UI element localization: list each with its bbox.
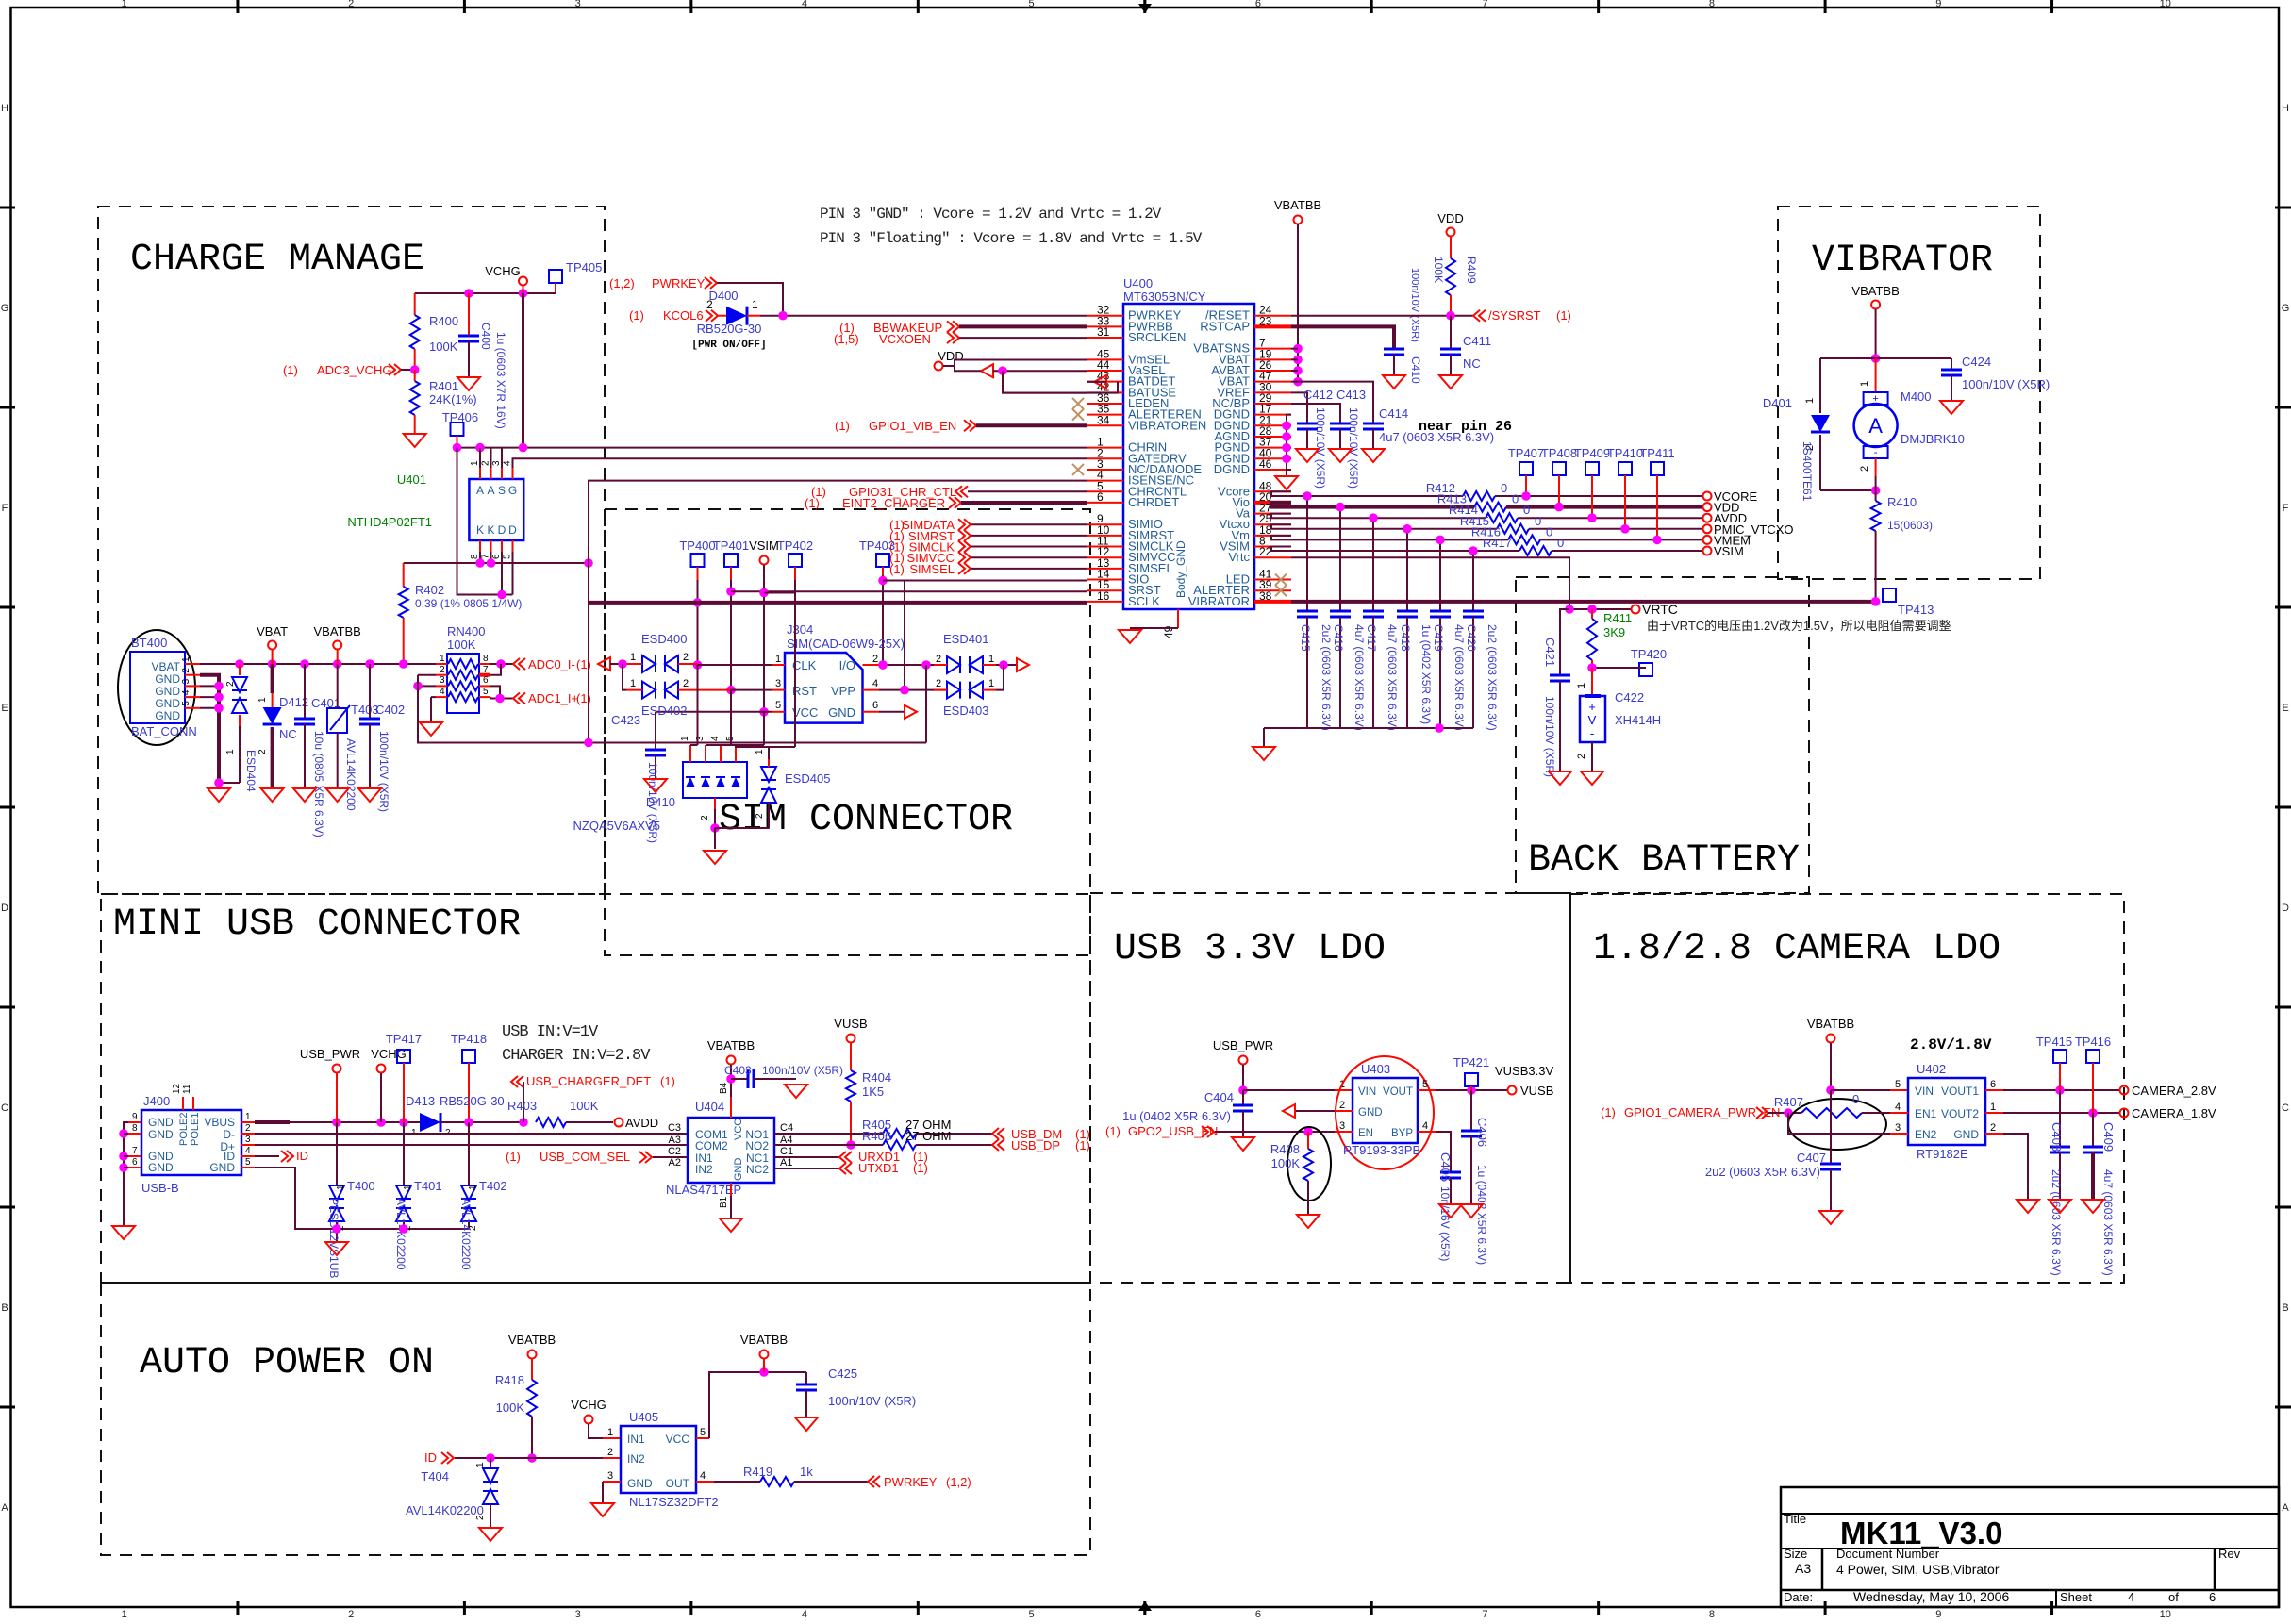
- capacitor C413: [1330, 423, 1351, 425]
- ground U402: [2017, 1200, 2039, 1213]
- U403 VOUT pin 5: [1418, 1089, 1436, 1091]
- svg-text:CAMERA_2.8V: CAMERA_2.8V: [2132, 1084, 2216, 1098]
- frame tick top/bottom: [2050, 0, 2053, 13]
- U400 pin 12 SIMVCC: [1087, 556, 1123, 558]
- resistor R405 27 OHM: [883, 1129, 916, 1138]
- ground C402: [358, 788, 381, 802]
- svg-text:CHRDET: CHRDET: [1128, 495, 1179, 509]
- svg-text:2: 2: [1576, 754, 1587, 759]
- svg-text:C425: C425: [828, 1367, 857, 1381]
- svg-text:4 Power, SIM, USB,Vibrator: 4 Power, SIM, USB,Vibrator: [1836, 1562, 2000, 1577]
- svg-text:1: 1: [122, 1609, 127, 1619]
- svg-text:1: 1: [630, 678, 636, 689]
- ground C406: [1460, 1204, 1483, 1218]
- svg-text:[PWR ON/OFF]: [PWR ON/OFF]: [691, 340, 766, 351]
- power terminal CAMERA_1.8V: [2120, 1109, 2129, 1118]
- svg-text:9: 9: [1935, 1609, 1941, 1619]
- svg-text:USB_DP: USB_DP: [1011, 1138, 1060, 1152]
- svg-text:4: 4: [245, 1146, 251, 1156]
- capacitor C404 1u (0402 X5R 6.3V): [1242, 1090, 1244, 1105]
- net UTXD1 (1): [774, 1168, 839, 1169]
- U401 pin 7: [490, 540, 492, 552]
- svg-text:TP401: TP401: [713, 539, 749, 553]
- svg-text:/SYSRST: /SYSRST: [1488, 308, 1541, 323]
- svg-text:Vrtc: Vrtc: [1228, 550, 1250, 564]
- U400 pin 27 Va: [1254, 513, 1291, 515]
- svg-text:TP416: TP416: [2075, 1035, 2111, 1049]
- svg-text:BYP: BYP: [1391, 1128, 1413, 1139]
- svg-text:UTXD1: UTXD1: [858, 1161, 899, 1175]
- no-connect X LED: [1275, 574, 1287, 586]
- svg-text:7: 7: [1482, 0, 1487, 9]
- svg-text:VUSB: VUSB: [834, 1017, 867, 1031]
- testpoint TP408: [1552, 462, 1566, 475]
- svg-text:5: 5: [1895, 1079, 1901, 1090]
- svg-text:EN: EN: [1358, 1128, 1373, 1139]
- svg-text:GPO2_USB_EN: GPO2_USB_EN: [1128, 1124, 1218, 1138]
- svg-text:TP408: TP408: [1541, 446, 1577, 460]
- wire NC/BP to C413: [1291, 404, 1340, 423]
- wire J400 gnd: [124, 1122, 128, 1226]
- U400 pin 5 CHRCNTL: [1087, 490, 1123, 492]
- net USB_DM (1): [992, 1128, 1004, 1139]
- wire VPP row: [879, 689, 948, 691]
- BT400 pin 1: [185, 663, 200, 665]
- ground C413: [1329, 449, 1352, 462]
- svg-text:A: A: [1, 1502, 8, 1514]
- connector J400 USB-B: [141, 1110, 241, 1175]
- net Vrtc wire to VRTC: [1291, 557, 1569, 609]
- wire BATUSE: [1003, 392, 1087, 394]
- svg-text:VBATBB: VBATBB: [707, 1038, 755, 1052]
- svg-text:MK11_V3.0: MK11_V3.0: [1840, 1516, 2002, 1550]
- ground D412: [261, 788, 284, 802]
- svg-text:VIN: VIN: [1915, 1085, 1934, 1098]
- svg-text:U405: U405: [629, 1410, 658, 1424]
- svg-text:VDD: VDD: [1437, 211, 1463, 225]
- svg-text:5: 5: [775, 700, 781, 711]
- wire RN400 pin2/3 net down: [417, 681, 419, 692]
- power terminal VSIM: [1703, 547, 1712, 555]
- wire RSTCAP to C410: [1291, 326, 1394, 349]
- U401 pin 2: [490, 468, 492, 479]
- svg-text:2: 2: [475, 1515, 486, 1520]
- frame tick top/bottom: [1143, 0, 1146, 13]
- ground U404: [720, 1218, 742, 1232]
- ground D410: [704, 851, 726, 864]
- svg-text:TP400: TP400: [679, 539, 715, 553]
- connector BT400 BAT_CONN: [118, 630, 195, 745]
- svg-text:TP406: TP406: [442, 410, 478, 424]
- U400 pin 13 SIMSEL: [1087, 568, 1123, 570]
- svg-text:C405: C405: [1438, 1152, 1453, 1182]
- svg-text:Title: Title: [1784, 1512, 1806, 1526]
- svg-text:GND: GND: [148, 1161, 174, 1174]
- svg-text:(1,2): (1,2): [609, 276, 635, 290]
- svg-text:VOUT: VOUT: [1383, 1086, 1413, 1098]
- svg-text:2: 2: [440, 665, 445, 675]
- svg-text:C400: C400: [479, 323, 492, 350]
- resistor R403 100K: [536, 1118, 566, 1127]
- svg-text:D: D: [1, 903, 8, 914]
- svg-text:ESD405: ESD405: [785, 771, 830, 786]
- U400 pin 7 VBATSNS: [1254, 348, 1291, 350]
- U400 pin 1 CHRIN: [1087, 447, 1123, 449]
- svg-text:GPIO1_VIB_EN: GPIO1_VIB_EN: [869, 419, 956, 433]
- net USB_DP (1): [992, 1139, 1004, 1151]
- net VIBRATOR wire to vibrator section: [1291, 600, 1876, 604]
- resistor R413 0: [1474, 503, 1506, 512]
- svg-text:NTHD4P02FT1: NTHD4P02FT1: [347, 515, 432, 529]
- testpoint TP402: [789, 554, 802, 567]
- svg-text:GND: GND: [155, 697, 180, 710]
- diode D412 NC: [272, 650, 274, 664]
- svg-text:C2: C2: [668, 1146, 681, 1157]
- svg-text:OUT: OUT: [666, 1477, 690, 1490]
- svg-text:PESD12VS1UB: PESD12VS1UB: [327, 1198, 340, 1278]
- no-connect X NC/DANODE: [1072, 464, 1084, 475]
- ground C412: [1296, 449, 1319, 462]
- svg-text:100n/10V (X5R): 100n/10V (X5R): [1962, 377, 2050, 391]
- resistor R406 27 OHM: [883, 1140, 916, 1150]
- svg-text:R417: R417: [1483, 536, 1512, 550]
- ground U405: [591, 1503, 614, 1516]
- svg-text:4: 4: [710, 736, 721, 741]
- ground cap bus: [1253, 747, 1275, 760]
- svg-text:GND: GND: [155, 709, 180, 722]
- ground C421: [1549, 771, 1571, 785]
- svg-text:C4: C4: [780, 1122, 793, 1134]
- svg-text:C1: C1: [780, 1146, 793, 1157]
- wire SRST rail: [731, 590, 1087, 592]
- testpoint TP413: [1883, 588, 1896, 602]
- svg-text:VUSB: VUSB: [1520, 1084, 1553, 1098]
- U404 VCC pin B4: [730, 1097, 732, 1118]
- wire D400 to pin32: [760, 315, 1087, 317]
- svg-text:AVL14K02200: AVL14K02200: [406, 1503, 484, 1517]
- wire D- to U404: [255, 1133, 688, 1135]
- svg-text:C407: C407: [1797, 1151, 1826, 1165]
- svg-text:V: V: [1588, 713, 1597, 727]
- svg-text:4: 4: [440, 687, 445, 697]
- svg-text:0: 0: [1852, 1092, 1859, 1106]
- wire U401 pin3 up: [501, 448, 503, 468]
- U400 pin 30 VREF: [1254, 391, 1291, 393]
- svg-text:EN1: EN1: [1915, 1107, 1937, 1120]
- wire U401 pin1 up: [479, 448, 481, 468]
- svg-text:VIBRATOR: VIBRATOR: [1188, 594, 1250, 608]
- power VBATBB auto left: [528, 1351, 537, 1359]
- svg-text:2: 2: [872, 654, 878, 665]
- testpoint TP415: [2053, 1050, 2067, 1063]
- svg-text:1: 1: [607, 1427, 613, 1438]
- svg-text:4u7 (0603 X5R 6.3V): 4u7 (0603 X5R 6.3V): [1353, 624, 1366, 731]
- U400 pin 48 Vcore: [1254, 490, 1291, 492]
- resistor network RN400 100K: [447, 654, 479, 713]
- svg-text:POLE2: POLE2: [178, 1113, 190, 1146]
- svg-text:DGND: DGND: [1214, 462, 1250, 476]
- svg-text:Wednesday, May 10, 2006: Wednesday, May 10, 2006: [1853, 1589, 2009, 1604]
- wire VCC row: [656, 711, 772, 713]
- resistor R410 15(0603): [1875, 490, 1877, 501]
- svg-text:3: 3: [181, 678, 191, 684]
- frame tick top/bottom: [463, 0, 466, 13]
- svg-text:NZQA5V6AXV5: NZQA5V6AXV5: [573, 819, 661, 833]
- ground R408: [1297, 1215, 1320, 1228]
- svg-text:6: 6: [483, 675, 489, 686]
- svg-text:GND: GND: [148, 1128, 174, 1141]
- power terminal PMIC_VTCXO: [1703, 524, 1712, 533]
- frame tick top/bottom: [1824, 0, 1827, 13]
- svg-text:IN2: IN2: [627, 1452, 645, 1466]
- wire SIM IO riser: [589, 563, 926, 743]
- svg-text:1u (0603 X7R 16V): 1u (0603 X7R 16V): [494, 332, 507, 429]
- wire EN2 branch: [1788, 1113, 1890, 1134]
- U401 pin 5: [512, 540, 514, 552]
- svg-text:H: H: [2282, 103, 2289, 114]
- svg-text:Sheet: Sheet: [2060, 1590, 2092, 1604]
- svg-text:1: 1: [122, 0, 127, 9]
- U400 pin 3 NC/DANODE: [1087, 469, 1123, 471]
- power VBATBB top: [1294, 216, 1303, 224]
- wire U401 pin4 GATEDRV: [513, 458, 1087, 468]
- svg-text:ID: ID: [296, 1149, 308, 1163]
- svg-text:6: 6: [1990, 1079, 1996, 1090]
- junction VBAT pin row: [1293, 377, 1303, 387]
- svg-text:F: F: [2283, 503, 2289, 514]
- wire VBUS net: [255, 1120, 290, 1124]
- svg-text:8: 8: [483, 654, 489, 664]
- svg-text:GND: GND: [828, 705, 855, 720]
- svg-text:0: 0: [1523, 503, 1530, 517]
- net URXD1 (1): [774, 1156, 839, 1158]
- resistor R412 0: [1463, 491, 1495, 501]
- svg-text:SIM CONNECTOR: SIM CONNECTOR: [719, 799, 1013, 841]
- U401 pin 3: [501, 468, 503, 479]
- U401 pin 8: [479, 540, 481, 552]
- net USB_CHARGER_DET (1): [523, 1082, 524, 1122]
- resistor R404 1K5: [850, 1043, 852, 1070]
- wire J400 gnd5: [255, 1168, 469, 1229]
- U405 OUT pin 4: [696, 1481, 714, 1483]
- svg-text:GND: GND: [155, 685, 180, 698]
- svg-text:100n/10V (X5R): 100n/10V (X5R): [762, 1064, 843, 1077]
- U400 pin 47 VBAT: [1254, 381, 1291, 383]
- svg-text:VIN: VIN: [1358, 1086, 1376, 1098]
- svg-text:NC: NC: [279, 727, 297, 741]
- svg-text:GND: GND: [627, 1477, 653, 1490]
- svg-text:TP415: TP415: [2036, 1035, 2072, 1049]
- svg-text:2: 2: [683, 652, 689, 663]
- capacitor C405 10n/16V (X5R): [1440, 1171, 1461, 1174]
- resistor R408 100K in ellipse: [1287, 1127, 1331, 1201]
- ground C407: [1819, 1211, 1842, 1224]
- svg-text:38: 38: [1259, 589, 1272, 603]
- svg-text:(1): (1): [835, 419, 850, 433]
- svg-text:(1): (1): [1075, 1138, 1090, 1152]
- frame tick left/right: [0, 606, 15, 609]
- svg-text:2: 2: [481, 460, 491, 466]
- svg-text:S: S: [498, 484, 506, 497]
- node VRTC wires: [1569, 608, 1632, 610]
- testpoint TP400: [691, 554, 705, 567]
- BT400 pin 4: [185, 696, 200, 698]
- RN400 pin6: [479, 685, 490, 687]
- capacitor C407 2u2 (0603 X5R 6.3V): [1830, 1090, 1832, 1164]
- svg-text:(1): (1): [660, 1074, 675, 1088]
- svg-text:G: G: [1, 303, 9, 314]
- svg-text:RB520G-30: RB520G-30: [697, 322, 762, 336]
- wire D+ to U404: [255, 1144, 688, 1146]
- capacitor C410: [1384, 348, 1404, 351]
- wire RST row: [731, 689, 772, 691]
- ground at U400 pin49: [1119, 630, 1141, 643]
- svg-text:VCHG: VCHG: [485, 264, 521, 278]
- svg-text:27 OHM: 27 OHM: [905, 1129, 951, 1143]
- svg-text:9: 9: [1935, 0, 1941, 9]
- svg-text:VCC: VCC: [666, 1433, 690, 1446]
- wire TP402 jog: [794, 567, 796, 580]
- svg-text:TP403: TP403: [859, 539, 895, 553]
- svg-text:C410: C410: [1409, 356, 1422, 384]
- diode D413 RB520G-30: [420, 1113, 440, 1132]
- junction VBAT bus: [268, 659, 277, 669]
- svg-text:R407: R407: [1774, 1095, 1803, 1109]
- capacitor C419 4u7 (0603 X5R 6.3V): [1439, 539, 1441, 611]
- U400 pin 2 GATEDRV: [1087, 457, 1123, 459]
- svg-text:U401: U401: [397, 472, 426, 487]
- diode D401 1S400TE61: [1819, 358, 1821, 413]
- svg-text:TP418: TP418: [451, 1032, 487, 1046]
- svg-text:-: -: [1874, 447, 1878, 458]
- frame tick left/right: [0, 1406, 15, 1409]
- svg-text:2u2 (0603 X5R 6.3V): 2u2 (0603 X5R 6.3V): [2050, 1169, 2063, 1276]
- svg-text:Date:: Date:: [1784, 1590, 1813, 1604]
- U400 pin 16 SCLK: [1087, 601, 1123, 603]
- wire NO2 to R406: [774, 1144, 883, 1146]
- title block frame: [1781, 1487, 2279, 1607]
- svg-text:4: 4: [802, 0, 807, 9]
- svg-text:6: 6: [132, 1157, 138, 1168]
- wire U401 pin2 up: [490, 448, 492, 468]
- zener T400 PESD12VS1UB: [336, 1122, 338, 1185]
- U400 pin 36 LEDEN: [1087, 403, 1123, 405]
- U400 pin 45 VmSEL: [1087, 358, 1123, 360]
- svg-text:J400: J400: [143, 1094, 170, 1108]
- rail wire to VDD terminal: [1506, 505, 1703, 509]
- svg-text:C421: C421: [1543, 638, 1557, 667]
- svg-text:1: 1: [752, 298, 758, 311]
- U400 pin 22 Vrtc: [1254, 556, 1291, 558]
- junction VBAT bus: [365, 659, 374, 669]
- svg-text:100n/10V (X5R): 100n/10V (X5R): [377, 731, 390, 812]
- svg-text:VBAT: VBAT: [152, 660, 181, 673]
- AUTO POWER ON box: [101, 1283, 1090, 1555]
- testpoint TP421: [1465, 1073, 1478, 1086]
- svg-text:6: 6: [1255, 1609, 1261, 1619]
- gnd arrow J304: [905, 705, 917, 719]
- svg-text:TP417: TP417: [386, 1032, 422, 1046]
- svg-text:Rev: Rev: [2218, 1547, 2241, 1561]
- svg-text:23: 23: [1259, 314, 1272, 327]
- svg-text:ADC1_I+: ADC1_I+: [528, 691, 578, 705]
- svg-text:22: 22: [1259, 545, 1272, 558]
- U400 pin 38 VIBRATOR: [1254, 600, 1291, 604]
- power VBATBB vibrator: [1871, 301, 1880, 309]
- svg-text:GND: GND: [1953, 1128, 1979, 1141]
- svg-text:TP420: TP420: [1631, 647, 1667, 661]
- ground C423: [644, 779, 667, 792]
- svg-text:ESD403: ESD403: [943, 704, 988, 718]
- svg-text:8: 8: [132, 1123, 138, 1134]
- esd ESD404: [239, 664, 241, 675]
- ground R401: [404, 434, 426, 447]
- U400 pin 41 LED: [1254, 579, 1291, 581]
- net PWRKEY out (1,2): [868, 1476, 880, 1487]
- power VBATBB camera: [1827, 1035, 1835, 1043]
- frame tick top/bottom: [1370, 0, 1373, 13]
- J304 pin3 RST: [772, 689, 785, 691]
- svg-text:of: of: [2168, 1590, 2179, 1604]
- svg-text:H: H: [1, 103, 8, 114]
- fold mark bottom: [1144, 1608, 1147, 1615]
- testpoint TP416: [2086, 1050, 2100, 1063]
- svg-text:9: 9: [132, 1112, 138, 1122]
- svg-text:1: 1: [988, 654, 994, 665]
- testpoint TP406: [451, 423, 464, 436]
- wire NO1 to R405: [774, 1133, 883, 1135]
- svg-text:D: D: [508, 523, 517, 537]
- svg-text:C408: C408: [2050, 1122, 2064, 1152]
- svg-text:ESD402: ESD402: [641, 704, 687, 718]
- wire TP400 to SCLK and SIM CLK: [697, 567, 699, 580]
- U405 GND pin 3: [603, 1481, 621, 1483]
- svg-text:A3: A3: [669, 1135, 681, 1146]
- wire top tee: [1820, 357, 1951, 359]
- wire VBATBB down to VBAT pins: [1297, 224, 1299, 382]
- svg-text:4: 4: [700, 1470, 706, 1482]
- svg-text:1: 1: [257, 697, 268, 703]
- CHARGE MANAGE box: [98, 207, 605, 894]
- svg-text:J304: J304: [787, 622, 813, 637]
- svg-text:1: 1: [470, 460, 480, 466]
- svg-text:BT400: BT400: [131, 636, 167, 650]
- svg-text:EN2: EN2: [1915, 1128, 1937, 1141]
- svg-text:(1): (1): [889, 562, 905, 576]
- rail wire to VSIM terminal: [1552, 550, 1703, 552]
- svg-text:5: 5: [181, 701, 191, 706]
- svg-text:C411: C411: [1463, 334, 1491, 348]
- svg-text:1: 1: [755, 749, 765, 754]
- svg-text:0: 0: [1512, 492, 1519, 506]
- svg-text:VIBRATOR: VIBRATOR: [1812, 240, 1993, 282]
- net ID arrow: [255, 1155, 279, 1157]
- svg-text:B4: B4: [719, 1082, 729, 1094]
- svg-text:RSTCAP: RSTCAP: [1200, 319, 1250, 333]
- svg-text:1: 1: [475, 1462, 486, 1467]
- svg-text:C403: C403: [724, 1064, 752, 1077]
- ic U401 NTHD4P02FT1: [469, 479, 523, 540]
- svg-text:VPP: VPP: [831, 684, 855, 698]
- junction VBAT bus: [333, 659, 342, 669]
- svg-text:4u7 (0603 X5R 6.3V): 4u7 (0603 X5R 6.3V): [1386, 624, 1399, 731]
- frame tick left/right: [0, 207, 15, 209]
- svg-text:C402: C402: [375, 703, 405, 717]
- wire VCHG to IN1: [589, 1424, 603, 1438]
- U400 pin 31 SRCLKEN: [1087, 337, 1123, 339]
- J304 pin6 GND: [863, 711, 880, 713]
- power terminal VDD: [1703, 503, 1712, 511]
